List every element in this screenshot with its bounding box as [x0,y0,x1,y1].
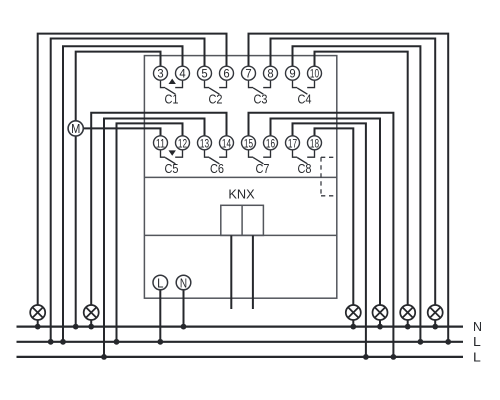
svg-text:11: 11 [156,136,165,150]
svg-text:9: 9 [289,67,295,81]
svg-text:N: N [180,275,187,290]
svg-text:N: N [473,320,482,334]
svg-text:4: 4 [179,67,185,81]
svg-text:L: L [157,275,163,290]
svg-text:L: L [473,335,481,349]
svg-text:M: M [71,122,80,136]
svg-text:C3: C3 [254,91,268,106]
svg-text:15: 15 [244,136,253,150]
svg-text:10: 10 [310,67,319,81]
svg-text:C1: C1 [165,91,179,106]
svg-text:C5: C5 [165,161,179,176]
svg-text:L: L [473,350,481,364]
svg-text:6: 6 [223,67,229,81]
svg-text:C7: C7 [256,161,270,176]
svg-text:8: 8 [267,67,273,81]
svg-text:17: 17 [288,136,297,150]
svg-text:7: 7 [245,67,251,81]
svg-text:14: 14 [222,136,231,150]
svg-text:C4: C4 [298,91,312,106]
svg-text:C6: C6 [210,161,224,176]
svg-text:13: 13 [200,136,209,150]
svg-text:C2: C2 [209,91,223,106]
svg-text:18: 18 [310,136,319,150]
svg-text:5: 5 [201,67,207,81]
svg-text:12: 12 [178,136,187,150]
svg-text:KNX: KNX [228,187,255,202]
svg-text:3: 3 [157,67,163,81]
svg-text:16: 16 [266,136,275,150]
svg-text:C8: C8 [298,161,312,176]
